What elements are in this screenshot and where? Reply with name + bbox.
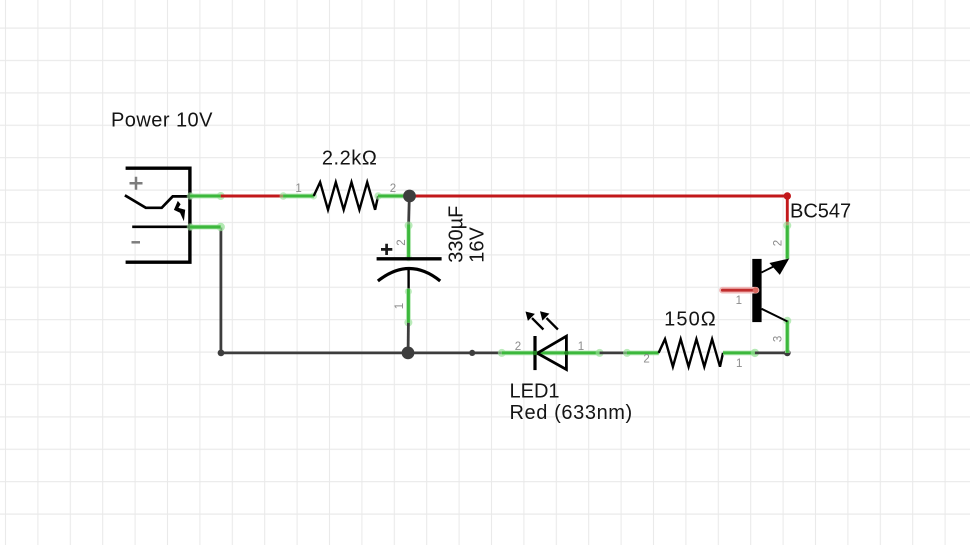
wire red top rail: [410, 195, 788, 198]
wire Q1 pin2 leg (green): [783, 222, 791, 259]
LED LED1: [526, 311, 569, 370]
junction bottom: [402, 347, 415, 360]
svg-text:2: 2: [515, 341, 521, 353]
resistor R2 150: [659, 339, 723, 367]
wire R2 pin1 leg (green): [723, 349, 759, 357]
wire R1 pin1 leg (green): [280, 192, 318, 200]
wire C1 bottom (dark): [407, 323, 410, 353]
wire C1 top (dark): [407, 197, 410, 225]
wire Q1 pin3 leg (green): [783, 317, 791, 353]
svg-text:2: 2: [390, 183, 396, 195]
endpoint dot red: [784, 192, 791, 199]
wire bottom rail to LED (dark): [408, 351, 502, 354]
wire J1 minus pin (green): [187, 223, 225, 231]
wire J1 plus pin (green): [187, 192, 225, 200]
svg-text:Red (633nm): Red (633nm): [510, 402, 633, 424]
junction top: [403, 190, 416, 203]
wire R2 pin2 leg (green): [623, 349, 659, 357]
wire R2 to Q1 emitter (dark): [755, 351, 787, 354]
svg-text:2: 2: [396, 239, 408, 245]
wire red vertical to Q1: [786, 196, 789, 225]
svg-text:16V: 16V: [467, 227, 489, 263]
svg-text:2: 2: [643, 354, 649, 366]
svg-text:150Ω: 150Ω: [664, 308, 717, 330]
wire bottom rail left (dark): [221, 351, 408, 354]
svg-text:1: 1: [736, 295, 742, 307]
wire R1 pin2 leg (green): [374, 192, 409, 200]
svg-text:3: 3: [773, 336, 785, 342]
transistor Q1 BC547: [722, 259, 789, 323]
wire C1 pin2 leg (green): [405, 222, 413, 262]
power jack J1: [125, 168, 190, 262]
svg-text:BC547: BC547: [790, 201, 851, 223]
svg-text:Power 10V: Power 10V: [111, 110, 213, 132]
capacitor C1: [377, 244, 442, 290]
wire C1 pin1 leg (green): [404, 288, 412, 327]
svg-text:1: 1: [578, 341, 584, 353]
svg-text:330µF: 330µF: [446, 206, 468, 263]
wire LED anode to R2 (dark): [600, 351, 627, 354]
resistor R1 2.2k: [314, 182, 378, 210]
wire left vertical (dark): [219, 228, 222, 353]
svg-text:1: 1: [736, 358, 742, 370]
svg-text:LED1: LED1: [510, 381, 560, 403]
endpoint dot dark: [784, 350, 791, 357]
bendpoint mid: [469, 350, 475, 356]
svg-text:2: 2: [773, 240, 785, 246]
svg-text:2.2kΩ: 2.2kΩ: [322, 148, 378, 170]
svg-text:1: 1: [394, 303, 406, 309]
bendpoint left: [218, 350, 225, 357]
wire LED cathode leg (green): [498, 349, 604, 357]
svg-text:1: 1: [295, 183, 301, 195]
wire red J1 to R1: [221, 195, 283, 198]
